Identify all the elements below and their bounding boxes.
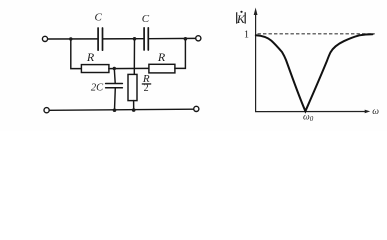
- wire top rail middle: [103, 38, 143, 40]
- label |K| bars: [237, 12, 246, 23]
- svg-text:K: K: [236, 12, 246, 26]
- x-axis arrowhead: [365, 110, 371, 114]
- wire top rail right: [149, 37, 196, 39]
- node bottom rail 2C junction: [113, 108, 117, 112]
- label R/2 fraction bar: [142, 83, 151, 84]
- wire lower-T middle: [109, 67, 149, 69]
- node C-C junction: [133, 37, 137, 41]
- svg-text:C: C: [142, 13, 150, 25]
- wire 2C bottom lead: [114, 88, 117, 110]
- dashed level-1 line: [258, 33, 375, 35]
- response curve: [256, 34, 373, 111]
- terminal output top: [196, 36, 201, 41]
- resistor R1 body: [81, 65, 109, 73]
- svg-text:2C: 2C: [91, 83, 104, 94]
- capacitor C1 plates: [98, 28, 102, 50]
- wire top rail left: [48, 38, 98, 40]
- capacitor C2 plates: [144, 28, 148, 50]
- svg-text:ω: ω: [372, 107, 379, 117]
- svg-text:1: 1: [244, 30, 249, 41]
- wire bottom rail: [49, 109, 193, 110]
- capacitor 2C plates: [106, 84, 123, 88]
- y-axis: [255, 14, 257, 112]
- node bottom rail R/2 junction: [132, 108, 136, 112]
- node R-R junction: [113, 67, 116, 70]
- node top-right junction: [184, 37, 188, 41]
- wire R2 to right rail riser: [175, 39, 186, 69]
- wire R/2 bottom lead: [133, 101, 135, 111]
- svg-text:R: R: [157, 50, 166, 64]
- resistor R2 body: [149, 64, 175, 73]
- terminal output bottom: [194, 106, 199, 111]
- svg-text:ω0: ω0: [303, 112, 314, 123]
- label K dot accent: [240, 11, 242, 13]
- wire C-C junction down to R/2: [133, 39, 135, 75]
- terminal input bottom: [44, 108, 49, 113]
- svg-text:2: 2: [144, 83, 149, 94]
- x-axis: [255, 111, 366, 113]
- terminal input top: [42, 36, 47, 41]
- resistor R/2 body: [128, 74, 137, 100]
- wire 2C top lead: [113, 69, 116, 84]
- svg-text:C: C: [95, 11, 103, 23]
- node top-left junction: [69, 37, 72, 40]
- svg-text:R: R: [86, 50, 95, 64]
- wire left drop to R1: [71, 39, 82, 69]
- y-axis arrowhead: [254, 8, 258, 16]
